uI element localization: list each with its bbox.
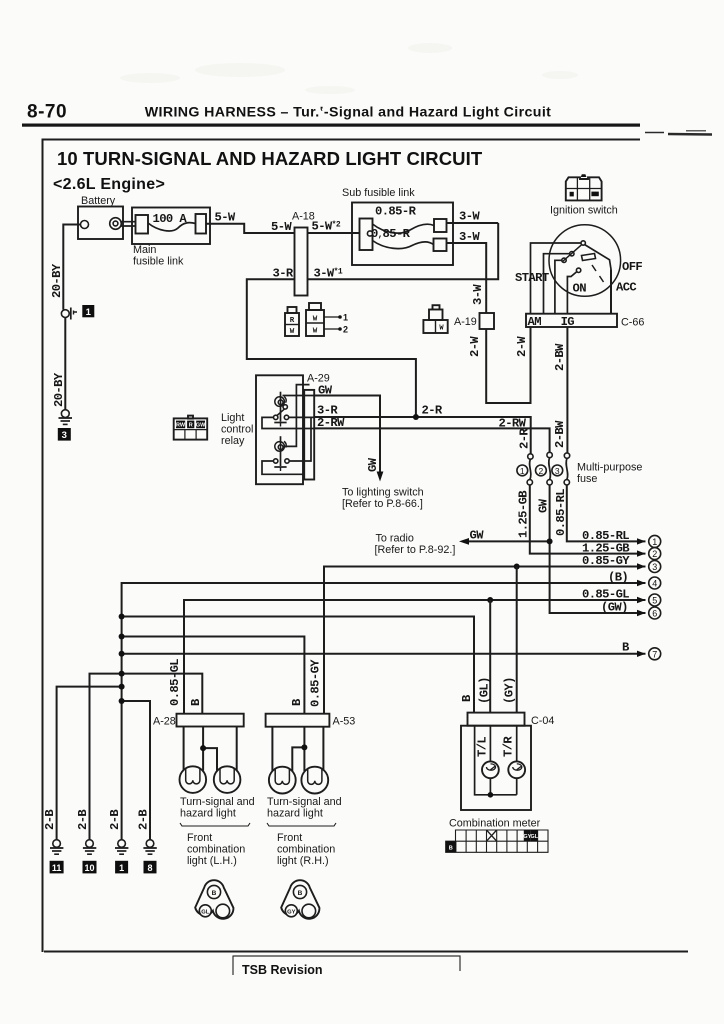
- svg-text:B: B: [298, 890, 303, 897]
- svg-text:2-R: 2-R: [422, 404, 443, 418]
- svg-text:3: 3: [62, 430, 67, 441]
- black square terminal 3: [58, 428, 71, 441]
- svg-text:[Refer to P.8-92.]: [Refer to P.8-92.]: [375, 544, 456, 556]
- bulb A-28 left: [180, 766, 207, 793]
- black square terminal 11: [50, 861, 64, 874]
- relay internal wiring 1: [262, 396, 314, 429]
- wire 5-W fusible link to A-18: [206, 224, 295, 233]
- junction connector A-29: [304, 390, 314, 480]
- svg-text:light (R.H.): light (R.H.): [277, 855, 329, 867]
- ground 11: [50, 840, 63, 855]
- svg-text:TSB Revision: TSB Revision: [242, 963, 323, 977]
- svg-text:(GW): (GW): [601, 601, 628, 615]
- svg-text:1: 1: [652, 537, 657, 547]
- arrow circle 3: [637, 563, 646, 569]
- ground 1: [115, 840, 128, 855]
- ground terminal (circle+bars): [59, 410, 73, 425]
- svg-text:To radio: To radio: [376, 533, 414, 545]
- node bus 653: [119, 651, 125, 657]
- wire left leg A-53: [271, 727, 273, 771]
- svg-text:Turn-signal and: Turn-signal and: [180, 796, 255, 808]
- multi-purpose fuse 2: [547, 452, 552, 485]
- svg-text:11: 11: [52, 863, 62, 873]
- wire GW fuse2 down: [550, 485, 646, 613]
- combination meter box: [461, 726, 531, 810]
- header rule: [22, 124, 640, 127]
- svg-text:8-70: 8-70: [27, 102, 67, 123]
- svg-text:W: W: [313, 316, 318, 324]
- svg-text:2-RW: 2-RW: [499, 417, 527, 431]
- svg-text:RW: RW: [176, 423, 186, 429]
- svg-text:Light: Light: [221, 412, 244, 424]
- svg-text:3: 3: [652, 562, 657, 572]
- multi-purpose fuse 1: [527, 454, 533, 485]
- svg-text:WIRING HARNESS – Tur.ʽ-Signal: WIRING HARNESS – Tur.ʽ-Signal and Hazard…: [145, 105, 552, 121]
- svg-text:10: 10: [84, 863, 94, 873]
- node GY meter junction: [514, 564, 520, 570]
- svg-text:GW: GW: [537, 498, 551, 513]
- svg-text:2: 2: [652, 549, 657, 559]
- svg-text:8: 8: [147, 863, 152, 873]
- battery: [78, 207, 123, 240]
- svg-text:(GY): (GY): [503, 677, 517, 704]
- svg-text:START: START: [515, 271, 549, 285]
- arrowhead GW down: [377, 472, 384, 482]
- meter T/L lamp wire: [489, 726, 491, 795]
- svg-text:hazard light: hazard light: [267, 808, 323, 820]
- wire 2-BW IG to fuse 3: [566, 327, 568, 453]
- black square terminal 1: [82, 305, 94, 318]
- svg-text:Multi-purpose: Multi-purpose: [577, 462, 642, 474]
- wire GL to left bulb: [183, 727, 185, 771]
- svg-text:2-W: 2-W: [515, 336, 529, 357]
- sub fusible link box: [352, 203, 453, 266]
- svg-text:light (L.H.): light (L.H.): [187, 855, 237, 867]
- ground 10: [83, 840, 96, 855]
- TSB revision footer: [233, 956, 460, 978]
- multi-purpose fuse 3: [564, 453, 570, 485]
- wire 2-RW relay to fuse 2: [314, 428, 549, 452]
- wire B split to bulbs: [203, 727, 217, 771]
- svg-text:0.85-GL: 0.85-GL: [582, 588, 629, 602]
- svg-text:W: W: [290, 328, 295, 336]
- svg-text:fusible link: fusible link: [133, 256, 184, 268]
- svg-text:GW: GW: [196, 423, 206, 429]
- wire GW to radio: [464, 540, 550, 542]
- connector A-53: [266, 714, 330, 727]
- connector A-19: [480, 313, 495, 329]
- wire ground8 branch: [122, 701, 150, 843]
- ignition switch contacts: [531, 241, 612, 314]
- svg-text:1.25-GB: 1.25-GB: [517, 490, 531, 538]
- svg-text:7: 7: [652, 649, 657, 659]
- wire OFF/ACC down: [610, 269, 612, 314]
- svg-text:C-04: C-04: [531, 715, 554, 727]
- connector icon C-66 (above ignition switch): [566, 174, 602, 200]
- svg-text:2-BW: 2-BW: [553, 343, 567, 371]
- svg-text:To lighting switch: To lighting switch: [342, 487, 424, 499]
- wire GY to meter: [516, 567, 518, 713]
- arrow circle 5: [637, 597, 646, 603]
- svg-text:0.85-GY: 0.85-GY: [309, 659, 323, 707]
- svg-text:2-B: 2-B: [137, 809, 151, 830]
- node GW junction: [547, 538, 553, 544]
- svg-text:B: B: [449, 845, 453, 851]
- fuse number 2: [536, 465, 547, 476]
- wire 5-W*2 A-18 to sub fusible link: [308, 232, 360, 234]
- svg-text:GL: GL: [201, 909, 210, 915]
- svg-text:W: W: [313, 328, 318, 336]
- switch arm to OFF: [585, 245, 612, 270]
- ignition switch circle: [549, 225, 621, 297]
- relay contact 2: [274, 459, 290, 463]
- connector icon A-19: [423, 305, 447, 333]
- relay coil 2: [274, 436, 286, 471]
- wire 3-R / 3-W*1 horizontal: [247, 223, 498, 417]
- bulb A-53 right: [301, 767, 328, 794]
- wire B to A-53: [122, 637, 305, 714]
- svg-text:4: 4: [652, 579, 657, 589]
- svg-text:0,85-R: 0,85-R: [371, 227, 411, 241]
- wire battery to 20-BY drop: [63, 225, 80, 310]
- svg-text:2-B: 2-B: [43, 809, 57, 830]
- svg-text:5-W: 5-W: [215, 211, 236, 225]
- svg-text:(GL): (GL): [478, 677, 492, 704]
- wire pivot to AM (START wire): [531, 243, 582, 314]
- main fusible link box: [121, 208, 210, 245]
- svg-text:3-W: 3-W: [471, 284, 485, 305]
- svg-text:R: R: [189, 423, 193, 429]
- wire 0.85-RL fuse3 to arrow 1: [567, 485, 646, 541]
- svg-text:A-53: A-53: [333, 716, 356, 728]
- svg-text:100 A: 100 A: [153, 212, 188, 226]
- svg-text:fuse: fuse: [577, 473, 597, 485]
- svg-text:ON: ON: [573, 282, 587, 296]
- dashed ACC line: [592, 265, 604, 282]
- svg-text:20-BY: 20-BY: [50, 263, 64, 298]
- black square terminal 10: [83, 861, 97, 874]
- node GL meter junction: [487, 597, 493, 603]
- fuse number 3: [552, 465, 563, 476]
- wire GL to meter: [489, 600, 491, 713]
- black square terminal 8: [144, 861, 157, 874]
- wire 3-W top to corner: [447, 222, 499, 224]
- svg-text:A-19: A-19: [454, 316, 477, 328]
- svg-text:20-BY: 20-BY: [52, 372, 66, 407]
- arrowhead to radio: [459, 538, 469, 545]
- svg-text:Battery: Battery: [81, 195, 116, 207]
- wire (B) row4: [122, 583, 646, 843]
- svg-text:2-R: 2-R: [518, 428, 532, 449]
- svg-text:[Refer to P.8-66.]: [Refer to P.8-66.]: [342, 498, 423, 510]
- svg-text:relay: relay: [221, 435, 245, 447]
- svg-text:3-R: 3-R: [273, 267, 294, 281]
- svg-text:AM: AM: [528, 315, 542, 329]
- svg-text:A-28: A-28: [153, 716, 176, 728]
- wire 3-W bottom to A-19: [447, 243, 487, 313]
- connector icon W/W with *1 *2 arrows: [306, 303, 348, 336]
- svg-text:10 TURN-SIGNAL AND HAZARD LIG: 10 TURN-SIGNAL AND HAZARD LIGHT CIRCUIT: [57, 148, 483, 169]
- contact ON: [576, 268, 580, 272]
- svg-text:<2.6L Engine>: <2.6L Engine>: [53, 176, 165, 193]
- connector A-28: [177, 714, 244, 727]
- meter T/R lamp wire: [516, 726, 518, 795]
- svg-text:ACC: ACC: [616, 281, 636, 295]
- svg-text:R: R: [290, 317, 295, 325]
- meter internal B wire: [475, 726, 517, 795]
- svg-text:C-66: C-66: [621, 317, 644, 329]
- wire 3-R relay to 2-R node and fuse 1: [314, 417, 531, 454]
- svg-text:combination: combination: [277, 844, 335, 856]
- svg-text:5-W: 5-W: [271, 220, 292, 234]
- svg-text:1: 1: [119, 863, 124, 873]
- wire 1.25-GB fuse1 to arrow 2: [530, 485, 646, 554]
- meter grid cell labels: [446, 830, 539, 852]
- bulb A-28 right: [214, 766, 241, 793]
- svg-text:Ignition switch: Ignition switch: [550, 205, 618, 217]
- svg-text:Sub fusible link: Sub fusible link: [342, 187, 415, 199]
- wire B row7 bus: [122, 653, 646, 655]
- svg-text:1: 1: [343, 313, 348, 323]
- bracket R: [267, 823, 336, 826]
- indicator lamp T/L: [482, 761, 499, 778]
- svg-text:0.85-GY: 0.85-GY: [582, 554, 630, 568]
- svg-text:GW: GW: [366, 457, 380, 472]
- svg-text:0.85-R: 0.85-R: [375, 205, 417, 219]
- diagram border frame: [43, 140, 689, 953]
- contact 1: [570, 252, 574, 256]
- contact 2: [562, 258, 566, 262]
- svg-text:Front: Front: [277, 832, 302, 844]
- svg-text:Combination meter: Combination meter: [449, 818, 541, 830]
- svg-text:2-BW: 2-BW: [553, 420, 567, 448]
- svg-text:2-W: 2-W: [468, 336, 482, 357]
- fuse number 1: [517, 465, 528, 476]
- svg-text:T/L: T/L: [476, 737, 490, 757]
- wire GW relay to down arrow: [314, 396, 380, 478]
- pivot: [581, 241, 585, 245]
- scan dashes top right: [645, 131, 712, 135]
- moving contact bar: [582, 254, 596, 261]
- meter pin grid: [446, 830, 548, 852]
- svg-text:2-B: 2-B: [108, 809, 122, 830]
- node meter ground rail: [488, 792, 494, 798]
- svg-text:2: 2: [539, 466, 544, 476]
- node bus 686: [119, 684, 125, 690]
- node A-28 B split: [200, 745, 206, 751]
- svg-text:1: 1: [86, 307, 92, 318]
- switch arm to contacts: [562, 245, 582, 262]
- wire B split to bulbs A-53: [292, 727, 304, 771]
- black square terminal 1: [115, 861, 128, 874]
- arrow circle 6: [637, 610, 646, 616]
- trefoil connector icon L: [195, 880, 233, 919]
- node bus 701: [119, 698, 125, 704]
- svg-text:0.85-RL: 0.85-RL: [554, 489, 568, 536]
- svg-text:GL: GL: [531, 834, 539, 840]
- svg-text:IG: IG: [561, 315, 575, 329]
- svg-text:hazard light: hazard light: [180, 808, 236, 820]
- bulb A-53 left: [269, 767, 296, 794]
- arrow circle 1: [637, 538, 646, 544]
- bracket L: [180, 823, 250, 826]
- connector icon R/W below A-18: [285, 307, 299, 336]
- svg-text:2: 2: [343, 325, 348, 335]
- arrow circle 7: [637, 651, 646, 657]
- wire ground10 branch / A-28 B: [90, 674, 203, 843]
- svg-text:GY: GY: [287, 909, 296, 915]
- indicator lamp T/R: [508, 761, 525, 778]
- node A-53 B split: [301, 744, 307, 750]
- wire right leg A-28: [236, 727, 238, 771]
- svg-text:3-W: 3-W: [459, 210, 480, 224]
- wire 20-BY lower: [64, 318, 66, 410]
- node bus 673: [119, 671, 125, 677]
- svg-text:5: 5: [652, 596, 657, 606]
- connector C-66 (AM IG box): [526, 314, 617, 327]
- svg-text:Front: Front: [187, 832, 212, 844]
- connector C-04: [468, 713, 525, 726]
- svg-text:3: 3: [555, 466, 560, 476]
- svg-text:T/R: T/R: [502, 736, 516, 757]
- svg-text:control: control: [221, 424, 253, 436]
- trefoil connector icon R: [281, 880, 319, 919]
- svg-text:3-W: 3-W: [459, 230, 480, 244]
- svg-text:combination: combination: [187, 844, 245, 856]
- connector icon RW/R/GW (left of relay): [174, 416, 208, 440]
- ground 8: [143, 840, 156, 855]
- svg-text:2-B: 2-B: [76, 809, 90, 830]
- wire 0.85-GL row5: [184, 600, 646, 714]
- svg-text:(B): (B): [608, 571, 628, 585]
- svg-text:Main: Main: [133, 244, 156, 256]
- inline connector (circle+bar): [61, 308, 77, 320]
- junction connector A-18: [295, 228, 308, 296]
- wire GY to right bulb: [322, 727, 324, 770]
- arrow circle 2: [637, 550, 646, 556]
- node 2-R junction: [413, 414, 419, 420]
- node bus 636: [119, 634, 125, 640]
- wire 0.85-GY row3: [324, 567, 646, 714]
- svg-text:1: 1: [520, 466, 525, 476]
- relay contact 1: [274, 405, 289, 420]
- relay coil 1: [274, 392, 286, 427]
- wire 2-W A-19 to AM: [486, 327, 530, 403]
- wire ground11 branch: [57, 687, 122, 843]
- svg-text:0.85-GL: 0.85-GL: [168, 659, 182, 706]
- relay internal wiring 2: [262, 385, 311, 475]
- arrow circle 4: [637, 580, 646, 586]
- node bus 616: [119, 614, 125, 620]
- svg-text:Turn-signal and: Turn-signal and: [267, 796, 342, 808]
- svg-text:OFF: OFF: [622, 260, 642, 274]
- svg-text:B: B: [212, 890, 217, 897]
- light control relay box: [256, 375, 303, 484]
- svg-text:6: 6: [652, 609, 657, 619]
- wire B to combination meter: [122, 617, 474, 713]
- svg-text:GW: GW: [470, 529, 485, 543]
